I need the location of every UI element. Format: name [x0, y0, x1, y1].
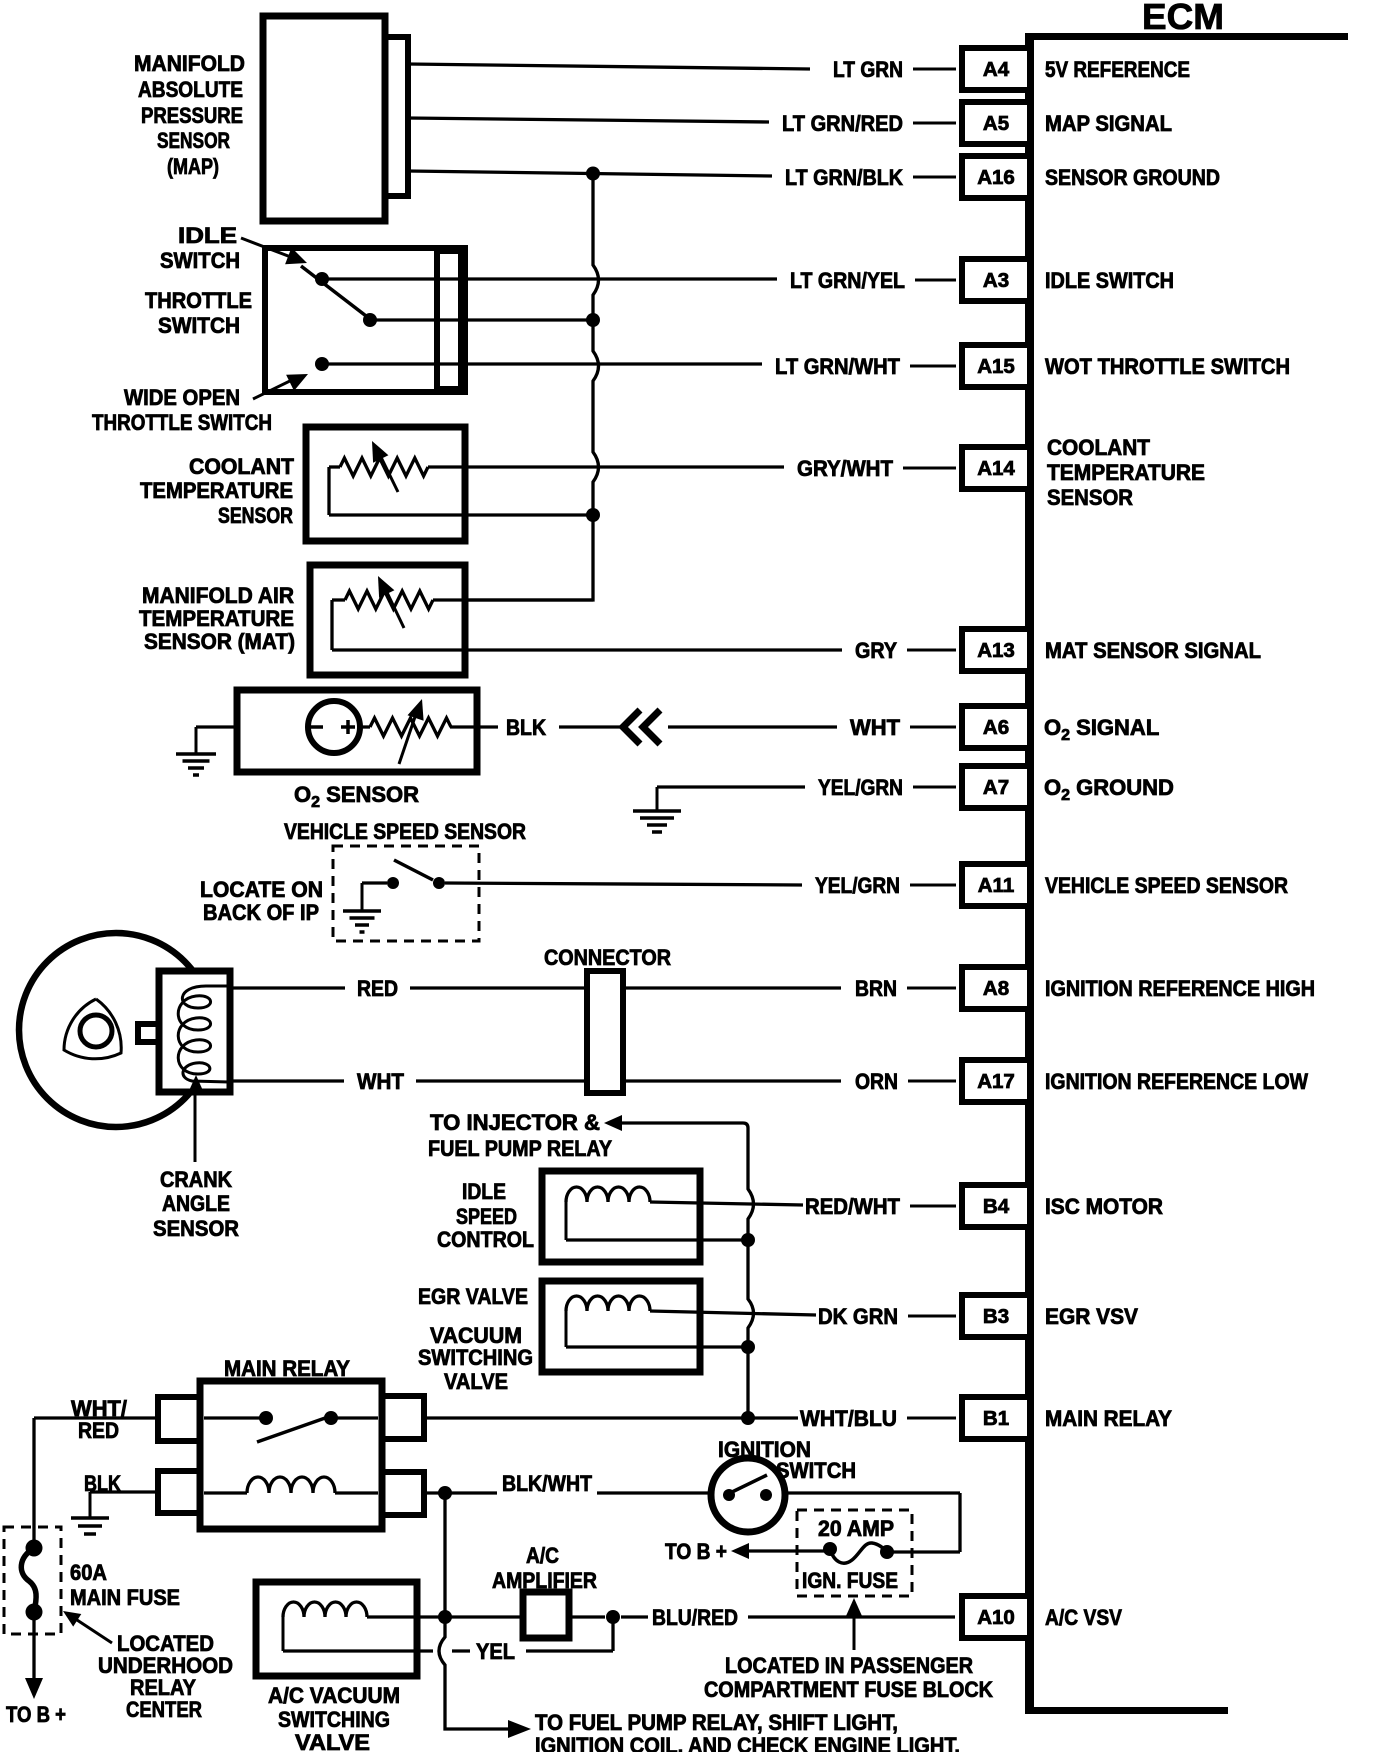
svg-text:ECM: ECM	[1142, 0, 1224, 37]
svg-text:WHT: WHT	[357, 1069, 405, 1094]
svg-text:BLU/RED: BLU/RED	[652, 1605, 738, 1630]
svg-text:LT GRN/WHT: LT GRN/WHT	[775, 354, 901, 379]
svg-text:ABSOLUTE: ABSOLUTE	[138, 77, 243, 102]
svg-text:A6: A6	[983, 716, 1009, 739]
svg-text:TO FUEL PUMP RELAY, SHIFT LIGH: TO FUEL PUMP RELAY, SHIFT LIGHT,	[535, 1710, 898, 1735]
svg-text:A/C VSV: A/C VSV	[1045, 1605, 1122, 1630]
svg-text:SWITCH: SWITCH	[776, 1458, 856, 1483]
svg-text:5V REFERENCE: 5V REFERENCE	[1045, 57, 1190, 82]
svg-text:DK GRN: DK GRN	[818, 1304, 898, 1329]
svg-text:IDLE: IDLE	[462, 1179, 506, 1204]
svg-text:A14: A14	[977, 457, 1015, 480]
svg-text:BLK: BLK	[506, 715, 546, 740]
svg-text:A8: A8	[983, 977, 1009, 1000]
svg-text:MAIN RELAY: MAIN RELAY	[1045, 1406, 1172, 1431]
svg-text:LT GRN/BLK: LT GRN/BLK	[785, 165, 903, 190]
svg-text:A11: A11	[978, 874, 1014, 897]
svg-text:LT GRN/YEL: LT GRN/YEL	[790, 268, 905, 293]
svg-text:IGNITION REFERENCE HIGH: IGNITION REFERENCE HIGH	[1045, 976, 1315, 1001]
svg-text:SENSOR GROUND: SENSOR GROUND	[1045, 165, 1220, 190]
svg-text:(MAP): (MAP)	[167, 154, 219, 179]
svg-text:LOCATE ON: LOCATE ON	[200, 877, 323, 902]
svg-text:B1: B1	[983, 1407, 1009, 1430]
svg-text:ANGLE: ANGLE	[162, 1191, 230, 1216]
svg-text:YEL: YEL	[476, 1639, 515, 1664]
svg-text:SENSOR: SENSOR	[218, 503, 293, 528]
svg-text:B4: B4	[983, 1195, 1010, 1218]
svg-text:A/C: A/C	[526, 1543, 559, 1568]
svg-text:IGNITION REFERENCE LOW: IGNITION REFERENCE LOW	[1045, 1069, 1308, 1094]
svg-text:SENSOR (MAT): SENSOR (MAT)	[144, 629, 295, 654]
svg-text:LT GRN/RED: LT GRN/RED	[782, 111, 903, 136]
svg-text:RED/WHT: RED/WHT	[805, 1194, 901, 1219]
svg-text:GRY/WHT: GRY/WHT	[797, 456, 894, 481]
svg-text:A7: A7	[983, 776, 1009, 799]
svg-text:SPEED: SPEED	[456, 1204, 517, 1229]
svg-text:YEL/GRN: YEL/GRN	[818, 775, 903, 800]
svg-text:A15: A15	[977, 355, 1015, 378]
svg-text:YEL/GRN: YEL/GRN	[815, 873, 900, 898]
svg-text:A17: A17	[977, 1070, 1015, 1093]
svg-text:VEHICLE SPEED SENSOR: VEHICLE SPEED SENSOR	[1045, 873, 1288, 898]
svg-text:CONNECTOR: CONNECTOR	[544, 945, 671, 970]
svg-text:MAP SIGNAL: MAP SIGNAL	[1045, 111, 1172, 136]
svg-text:TO B +: TO B +	[6, 1702, 66, 1727]
svg-text:A3: A3	[983, 269, 1009, 292]
svg-text:IDLE SWITCH: IDLE SWITCH	[1045, 268, 1174, 293]
svg-text:EGR VSV: EGR VSV	[1045, 1304, 1138, 1329]
svg-text:GRY: GRY	[855, 638, 897, 663]
svg-text:THROTTLE SWITCH: THROTTLE SWITCH	[92, 410, 272, 435]
svg-text:BLK/WHT: BLK/WHT	[502, 1471, 592, 1496]
svg-text:60A: 60A	[70, 1560, 107, 1585]
svg-text:A/C VACUUM: A/C VACUUM	[268, 1683, 400, 1708]
svg-text:SWITCH: SWITCH	[160, 248, 240, 273]
svg-text:ISC MOTOR: ISC MOTOR	[1045, 1194, 1163, 1219]
svg-text:RED: RED	[78, 1418, 119, 1443]
svg-text:WHT: WHT	[850, 715, 901, 740]
svg-text:IGN. FUSE: IGN. FUSE	[802, 1568, 898, 1593]
svg-text:COMPARTMENT FUSE BLOCK: COMPARTMENT FUSE BLOCK	[704, 1677, 993, 1702]
svg-text:ORN: ORN	[855, 1069, 898, 1094]
svg-text:CRANK: CRANK	[160, 1167, 232, 1192]
svg-text:SENSOR: SENSOR	[157, 128, 230, 153]
svg-text:LT GRN: LT GRN	[833, 57, 903, 82]
svg-text:WOT THROTTLE SWITCH: WOT THROTTLE SWITCH	[1045, 354, 1290, 379]
svg-text:BACK OF IP: BACK OF IP	[203, 900, 319, 925]
svg-text:TEMPERATURE: TEMPERATURE	[140, 478, 293, 503]
svg-text:MANIFOLD: MANIFOLD	[134, 51, 245, 76]
svg-text:CENTER: CENTER	[126, 1697, 202, 1722]
svg-text:VALVE: VALVE	[444, 1369, 508, 1394]
svg-text:A10: A10	[977, 1606, 1015, 1629]
svg-text:RED: RED	[357, 976, 398, 1001]
svg-text:IGNITION COIL, AND CHECK ENGIN: IGNITION COIL, AND CHECK ENGINE LIGHT.	[535, 1733, 960, 1752]
svg-text:TO INJECTOR &: TO INJECTOR &	[430, 1110, 600, 1135]
svg-text:20 AMP: 20 AMP	[818, 1516, 894, 1541]
svg-text:WIDE OPEN: WIDE OPEN	[124, 385, 240, 410]
svg-text:TEMPERATURE: TEMPERATURE	[1047, 460, 1205, 485]
svg-text:COOLANT: COOLANT	[189, 454, 295, 479]
svg-text:EGR VALVE: EGR VALVE	[418, 1284, 528, 1309]
svg-text:A13: A13	[977, 639, 1015, 662]
svg-text:VALVE: VALVE	[295, 1730, 370, 1752]
svg-text:A4: A4	[983, 58, 1010, 81]
svg-text:CONTROL: CONTROL	[437, 1227, 534, 1252]
svg-text:TEMPERATURE: TEMPERATURE	[139, 606, 294, 631]
svg-text:A16: A16	[977, 166, 1015, 189]
svg-text:MAT SENSOR SIGNAL: MAT SENSOR SIGNAL	[1045, 638, 1261, 663]
svg-text:SWITCH: SWITCH	[158, 313, 240, 338]
svg-text:FUEL PUMP RELAY: FUEL PUMP RELAY	[428, 1136, 612, 1161]
svg-text:VEHICLE SPEED SENSOR: VEHICLE SPEED SENSOR	[284, 819, 526, 844]
svg-text:COOLANT: COOLANT	[1047, 435, 1151, 460]
svg-text:A5: A5	[983, 112, 1009, 135]
svg-text:LOCATED IN PASSENGER: LOCATED IN PASSENGER	[725, 1653, 973, 1678]
svg-text:THROTTLE: THROTTLE	[145, 288, 252, 313]
svg-text:SWITCHING: SWITCHING	[278, 1707, 390, 1732]
svg-text:SWITCHING: SWITCHING	[418, 1345, 533, 1370]
svg-text:PRESSURE: PRESSURE	[141, 103, 243, 128]
svg-text:IDLE: IDLE	[178, 223, 237, 248]
svg-text:MANIFOLD AIR: MANIFOLD AIR	[142, 583, 294, 608]
svg-text:SENSOR: SENSOR	[1047, 485, 1133, 510]
svg-text:BRN: BRN	[855, 976, 897, 1001]
svg-text:AMPLIFIER: AMPLIFIER	[492, 1568, 597, 1593]
svg-text:B3: B3	[983, 1305, 1009, 1328]
svg-text:MAIN RELAY: MAIN RELAY	[224, 1356, 350, 1381]
svg-text:WHT/BLU: WHT/BLU	[800, 1406, 897, 1431]
svg-text:TO B +: TO B +	[665, 1539, 727, 1564]
svg-text:SENSOR: SENSOR	[153, 1216, 239, 1241]
svg-text:MAIN FUSE: MAIN FUSE	[70, 1585, 180, 1610]
